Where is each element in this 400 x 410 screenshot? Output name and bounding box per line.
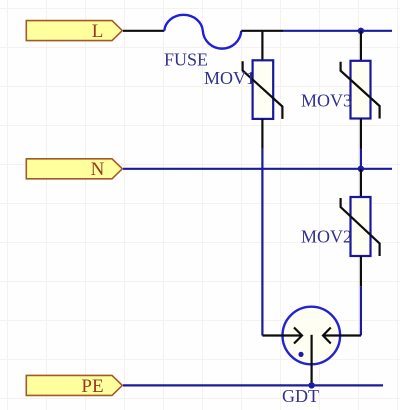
junction N/MOV3/MOV2 — [358, 166, 364, 172]
varistor MOV3 — [341, 31, 380, 149]
varistor MOV1 — [243, 31, 283, 149]
gas discharge tube GDT — [262, 307, 361, 386]
svg-text:GDT: GDT — [282, 386, 319, 406]
port N — [26, 159, 122, 180]
svg-text:MOV1: MOV1 — [204, 68, 255, 88]
wire MOV3 to N — [360, 149, 362, 169]
junction L/MOV3 — [358, 28, 364, 34]
pin fuse left — [123, 30, 164, 32]
svg-text:MOV2: MOV2 — [301, 227, 352, 247]
wire net N rail — [123, 168, 392, 170]
svg-text:MOV3: MOV3 — [301, 91, 352, 111]
svg-text:N: N — [91, 159, 105, 180]
port L — [26, 21, 122, 42]
svg-text:FUSE: FUSE — [164, 50, 208, 70]
wire MOV2 to GDT right — [360, 286, 362, 335]
wire net PE rail — [123, 384, 383, 386]
svg-text:L: L — [92, 21, 104, 42]
wire net L rail — [283, 30, 392, 32]
wire MOV1 to GDT left — [261, 149, 263, 336]
fuse FUSE body — [164, 15, 241, 49]
pin fuse right — [241, 30, 283, 32]
svg-text:PE: PE — [81, 376, 103, 397]
varistor MOV2 — [341, 169, 380, 286]
port PE — [26, 375, 122, 396]
junction GDT/PE — [308, 382, 314, 388]
